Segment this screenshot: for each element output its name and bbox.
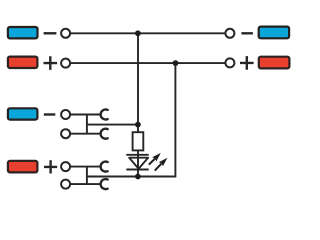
wire row3 to fork: [70, 114, 101, 116]
marker blue row3-left: [8, 108, 38, 119]
terminal circle row2-left: [61, 59, 70, 68]
label plus row5: [44, 160, 57, 173]
terminal circle top-right: [225, 29, 234, 38]
node C junction dot: [135, 122, 141, 128]
wire: plus rail, left circle to right circle: [70, 62, 224, 64]
wire: vertical from node A down to node C: [137, 33, 139, 131]
marker blue top-left: [8, 27, 38, 38]
bus vertical of lower fork group: [86, 167, 88, 185]
terminal circle row5: [61, 162, 70, 171]
wire: resistor bottom through LED to node D: [137, 150, 139, 176]
marker red row2-right: [259, 57, 290, 69]
LED anode bar: [126, 154, 148, 156]
label plus row2-left: [44, 56, 58, 70]
node D junction dot: [135, 174, 141, 180]
LED D1 triangle: [129, 158, 148, 169]
fork contact row4: [101, 129, 108, 139]
bus vertical of upper fork group: [86, 115, 88, 134]
terminal circle row4: [61, 129, 70, 138]
terminal circle row2-right: [225, 58, 234, 67]
wire row5 to fork: [70, 166, 101, 168]
marker red row2-left: [8, 57, 38, 68]
fork contact row3: [101, 109, 108, 119]
LED light arrow 2: [155, 158, 168, 171]
terminal circle row6: [61, 180, 70, 189]
label minus top-left: [44, 32, 57, 34]
terminal circle row3: [61, 110, 70, 119]
resistor R1: [133, 132, 144, 150]
terminal circle top-left: [61, 29, 70, 38]
fork contact row6: [101, 179, 108, 189]
label minus top-right: [241, 32, 253, 34]
label plus row2-right: [240, 56, 254, 70]
wire: bottom rail from fork bus to right corner: [86, 176, 176, 178]
node A junction dot: [135, 30, 141, 36]
wire: tap from upper fork bus to node C: [86, 124, 138, 126]
label minus row3: [44, 113, 56, 115]
fork contact row5: [101, 162, 108, 172]
wire row6 to fork: [70, 183, 101, 185]
wire row4 to fork: [70, 133, 101, 135]
marker red row5-left: [8, 161, 38, 173]
node B junction dot: [173, 60, 179, 66]
wire: minus rail top, left circle to right circle: [70, 32, 224, 34]
LED cathode bar: [126, 169, 148, 171]
marker blue top-right: [259, 27, 289, 39]
LED light arrow 1: [149, 153, 161, 165]
wire: vertical from node B down to bottom rail corner: [174, 63, 176, 176]
